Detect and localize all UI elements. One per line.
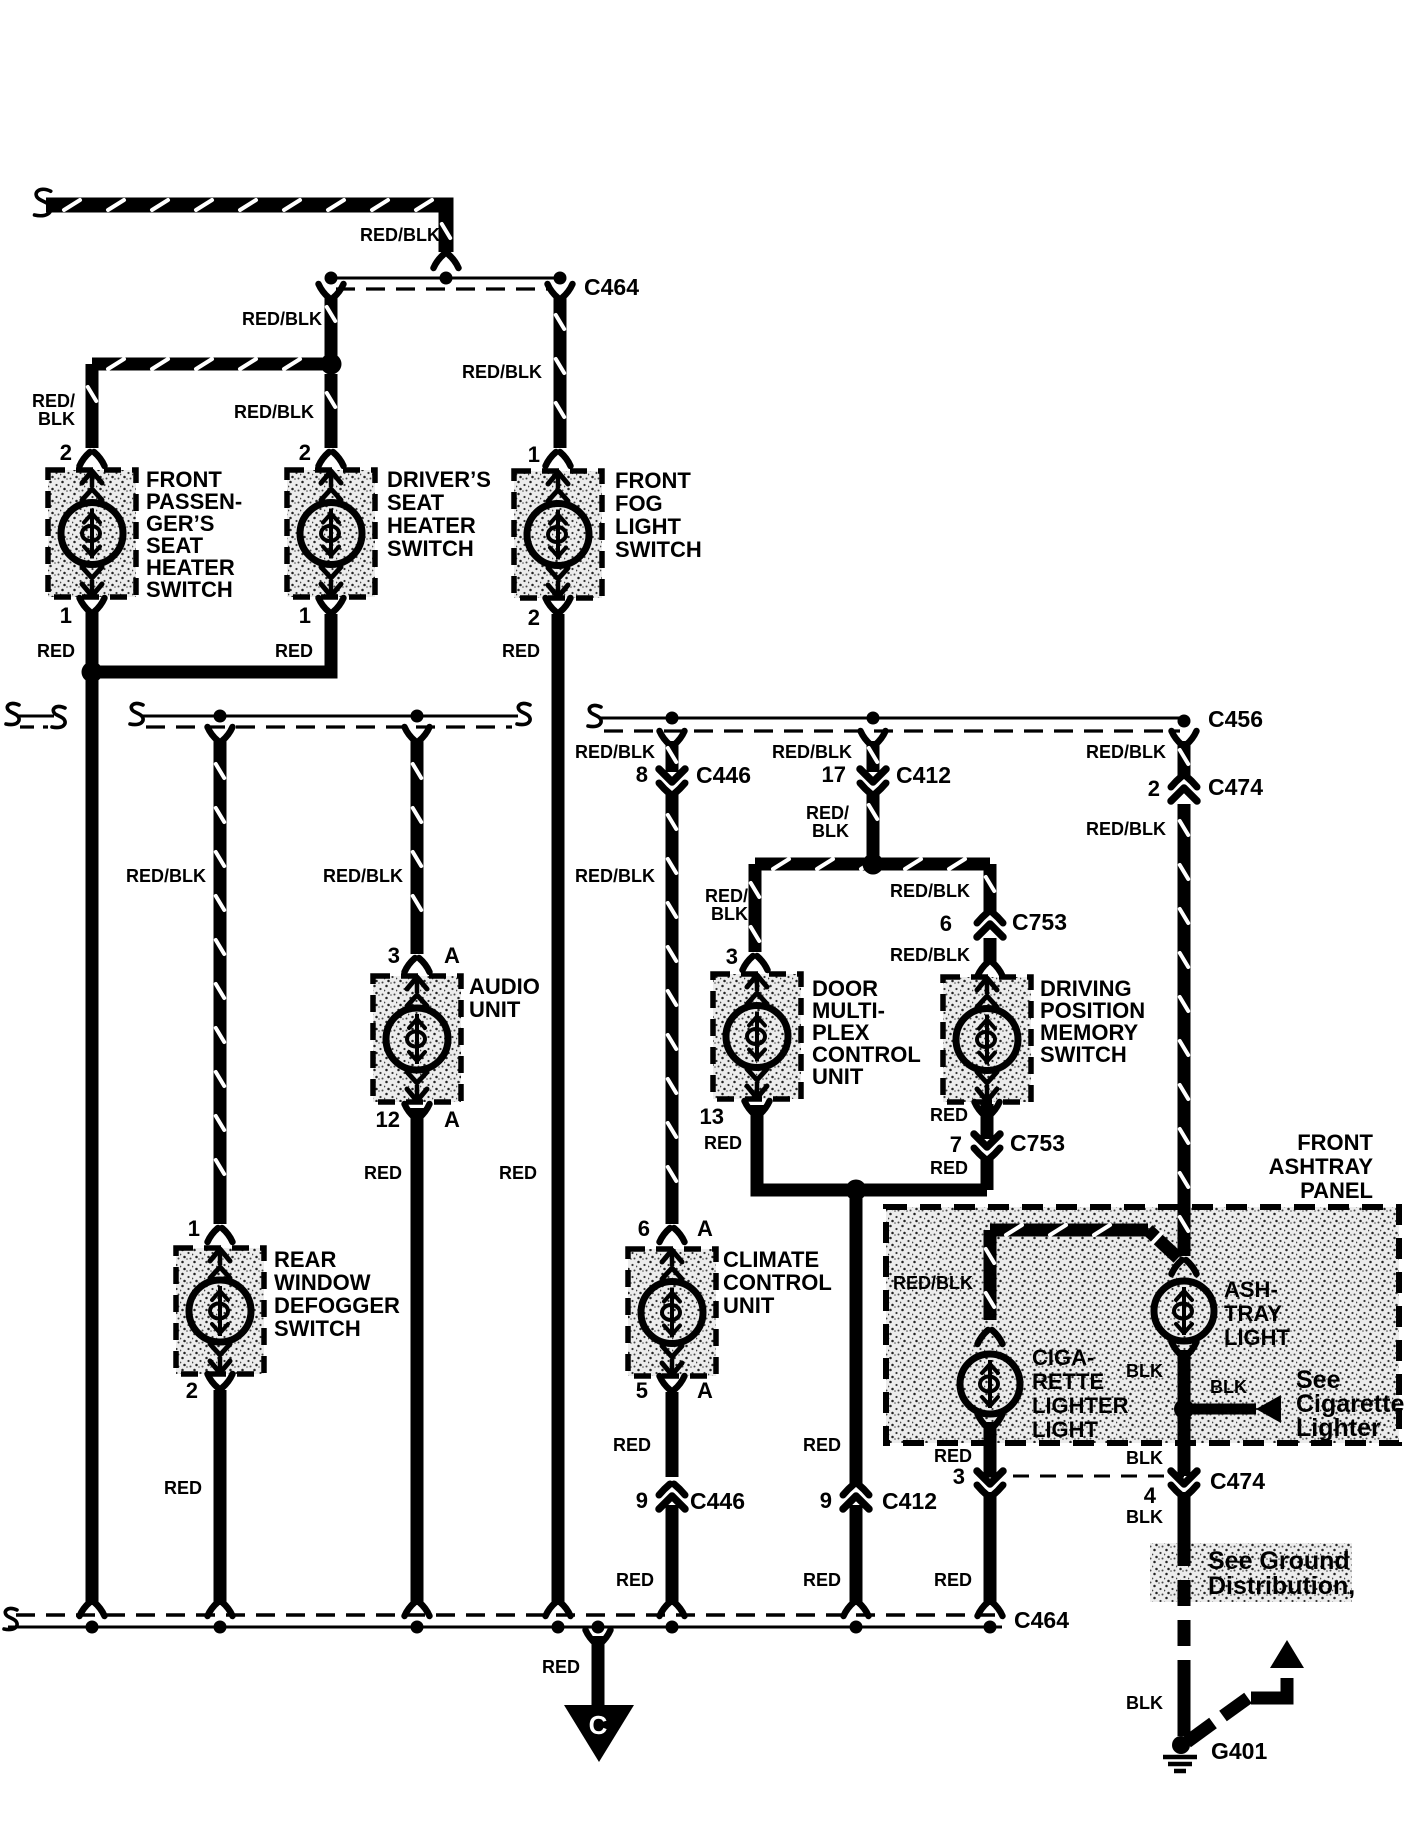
svg-text:G401: G401 <box>1211 1738 1267 1764</box>
svg-text:RED: RED <box>934 1446 972 1466</box>
svg-text:2: 2 <box>299 440 311 465</box>
svg-text:C446: C446 <box>696 762 751 788</box>
svg-text:BLK: BLK <box>1126 1361 1163 1381</box>
svg-text:WINDOW: WINDOW <box>274 1270 371 1295</box>
svg-text:RED/BLK: RED/BLK <box>1086 819 1166 839</box>
svg-text:BLK: BLK <box>711 904 748 924</box>
svg-text:RED: RED <box>803 1435 841 1455</box>
svg-text:See Ground: See Ground <box>1208 1547 1350 1575</box>
svg-text:1: 1 <box>60 603 72 628</box>
svg-text:RED: RED <box>934 1570 972 1590</box>
svg-text:RED: RED <box>616 1570 654 1590</box>
svg-text:UNIT: UNIT <box>469 997 521 1022</box>
svg-text:RED/BLK: RED/BLK <box>234 402 314 422</box>
svg-text:BLK: BLK <box>1126 1693 1163 1713</box>
svg-text:RED/BLK: RED/BLK <box>462 362 542 382</box>
svg-text:RED: RED <box>613 1435 651 1455</box>
svg-text:7: 7 <box>950 1132 962 1157</box>
svg-text:LIGHT: LIGHT <box>1032 1417 1099 1442</box>
svg-text:C412: C412 <box>882 1488 937 1514</box>
svg-text:RED/BLK: RED/BLK <box>893 1273 973 1293</box>
svg-text:2: 2 <box>60 440 72 465</box>
svg-text:RED: RED <box>803 1570 841 1590</box>
svg-text:BLK: BLK <box>1210 1377 1247 1397</box>
svg-text:RED/: RED/ <box>32 391 75 411</box>
svg-text:UNIT: UNIT <box>812 1064 864 1089</box>
svg-text:UNIT: UNIT <box>723 1293 775 1318</box>
svg-text:A: A <box>444 1107 460 1132</box>
svg-text:6: 6 <box>940 911 952 936</box>
svg-text:Lighter: Lighter <box>1296 1414 1381 1442</box>
svg-text:RED: RED <box>37 641 75 661</box>
svg-text:17: 17 <box>822 762 846 787</box>
svg-text:C753: C753 <box>1010 1130 1065 1156</box>
svg-text:5: 5 <box>636 1378 648 1403</box>
svg-text:RED: RED <box>930 1158 968 1178</box>
svg-text:FRONT: FRONT <box>615 468 691 493</box>
svg-text:6: 6 <box>638 1216 650 1241</box>
svg-text:9: 9 <box>636 1488 648 1513</box>
svg-text:HEATER: HEATER <box>387 513 476 538</box>
svg-text:RED/BLK: RED/BLK <box>126 866 206 886</box>
svg-text:RED/BLK: RED/BLK <box>242 309 322 329</box>
svg-text:C753: C753 <box>1012 909 1067 935</box>
svg-text:13: 13 <box>700 1104 724 1129</box>
svg-text:C: C <box>589 1710 608 1740</box>
svg-text:ASHTRAY: ASHTRAY <box>1269 1154 1374 1179</box>
svg-text:BLK: BLK <box>38 409 75 429</box>
svg-text:CIGA-: CIGA- <box>1032 1345 1094 1370</box>
svg-text:CLIMATE: CLIMATE <box>723 1247 819 1272</box>
svg-text:C474: C474 <box>1208 774 1263 800</box>
svg-text:SWITCH: SWITCH <box>387 536 474 561</box>
svg-text:FRONT: FRONT <box>1297 1130 1373 1155</box>
svg-text:1: 1 <box>299 603 311 628</box>
svg-text:C464: C464 <box>1014 1607 1069 1633</box>
svg-text:RED: RED <box>499 1163 537 1183</box>
svg-text:SWITCH: SWITCH <box>274 1316 361 1341</box>
svg-text:RED/: RED/ <box>806 803 849 823</box>
svg-text:SWITCH: SWITCH <box>1040 1042 1127 1067</box>
svg-text:RED: RED <box>704 1133 742 1153</box>
svg-text:C412: C412 <box>896 762 951 788</box>
svg-text:FOG: FOG <box>615 491 663 516</box>
svg-text:2: 2 <box>186 1378 198 1403</box>
svg-text:3: 3 <box>953 1464 965 1489</box>
svg-text:SEAT: SEAT <box>387 490 445 515</box>
svg-text:PANEL: PANEL <box>1300 1178 1373 1203</box>
svg-text:CONTROL: CONTROL <box>723 1270 832 1295</box>
svg-text:ASH-: ASH- <box>1224 1277 1278 1302</box>
svg-text:3: 3 <box>726 944 738 969</box>
svg-text:3: 3 <box>388 943 400 968</box>
svg-text:C456: C456 <box>1208 706 1263 732</box>
svg-text:RED/BLK: RED/BLK <box>575 742 655 762</box>
svg-text:DEFOGGER: DEFOGGER <box>274 1293 400 1318</box>
svg-text:RED: RED <box>502 641 540 661</box>
svg-text:4: 4 <box>1144 1483 1157 1508</box>
svg-text:RED/BLK: RED/BLK <box>890 945 970 965</box>
svg-text:SWITCH: SWITCH <box>615 537 702 562</box>
svg-text:A: A <box>444 943 460 968</box>
svg-text:2: 2 <box>528 605 540 630</box>
svg-text:RED: RED <box>275 641 313 661</box>
svg-text:RED/BLK: RED/BLK <box>1086 742 1166 762</box>
svg-text:A: A <box>697 1216 713 1241</box>
svg-text:TRAY: TRAY <box>1224 1301 1282 1326</box>
svg-text:RETTE: RETTE <box>1032 1369 1104 1394</box>
svg-text:BLK: BLK <box>812 821 849 841</box>
svg-text:LIGHTER: LIGHTER <box>1032 1393 1129 1418</box>
svg-text:BLK: BLK <box>1126 1448 1163 1468</box>
svg-text:1: 1 <box>188 1216 200 1241</box>
svg-text:RED/BLK: RED/BLK <box>890 881 970 901</box>
svg-text:A: A <box>697 1378 713 1403</box>
svg-text:AUDIO: AUDIO <box>469 974 540 999</box>
svg-text:C474: C474 <box>1210 1468 1265 1494</box>
svg-text:C446: C446 <box>690 1488 745 1514</box>
svg-text:RED/BLK: RED/BLK <box>575 866 655 886</box>
svg-text:BLK: BLK <box>1126 1507 1163 1527</box>
svg-text:RED/BLK: RED/BLK <box>772 742 852 762</box>
svg-text:RED: RED <box>364 1163 402 1183</box>
svg-text:LIGHT: LIGHT <box>615 514 682 539</box>
svg-text:LIGHT: LIGHT <box>1224 1325 1291 1350</box>
svg-text:REAR: REAR <box>274 1247 336 1272</box>
svg-text:2: 2 <box>1148 776 1160 801</box>
svg-text:C464: C464 <box>584 274 639 300</box>
svg-text:DRIVER’S: DRIVER’S <box>387 467 491 492</box>
svg-text:RED/BLK: RED/BLK <box>360 225 440 245</box>
svg-text:RED/BLK: RED/BLK <box>323 866 403 886</box>
svg-text:1: 1 <box>528 442 540 467</box>
svg-text:RED: RED <box>542 1657 580 1677</box>
svg-text:12: 12 <box>376 1107 400 1132</box>
svg-text:9: 9 <box>820 1488 832 1513</box>
svg-text:RED/: RED/ <box>705 886 748 906</box>
svg-text:RED: RED <box>930 1105 968 1125</box>
svg-text:8: 8 <box>636 762 648 787</box>
svg-text:RED: RED <box>164 1478 202 1498</box>
svg-text:SWITCH: SWITCH <box>146 577 233 602</box>
svg-text:Distribution,: Distribution, <box>1208 1572 1355 1600</box>
